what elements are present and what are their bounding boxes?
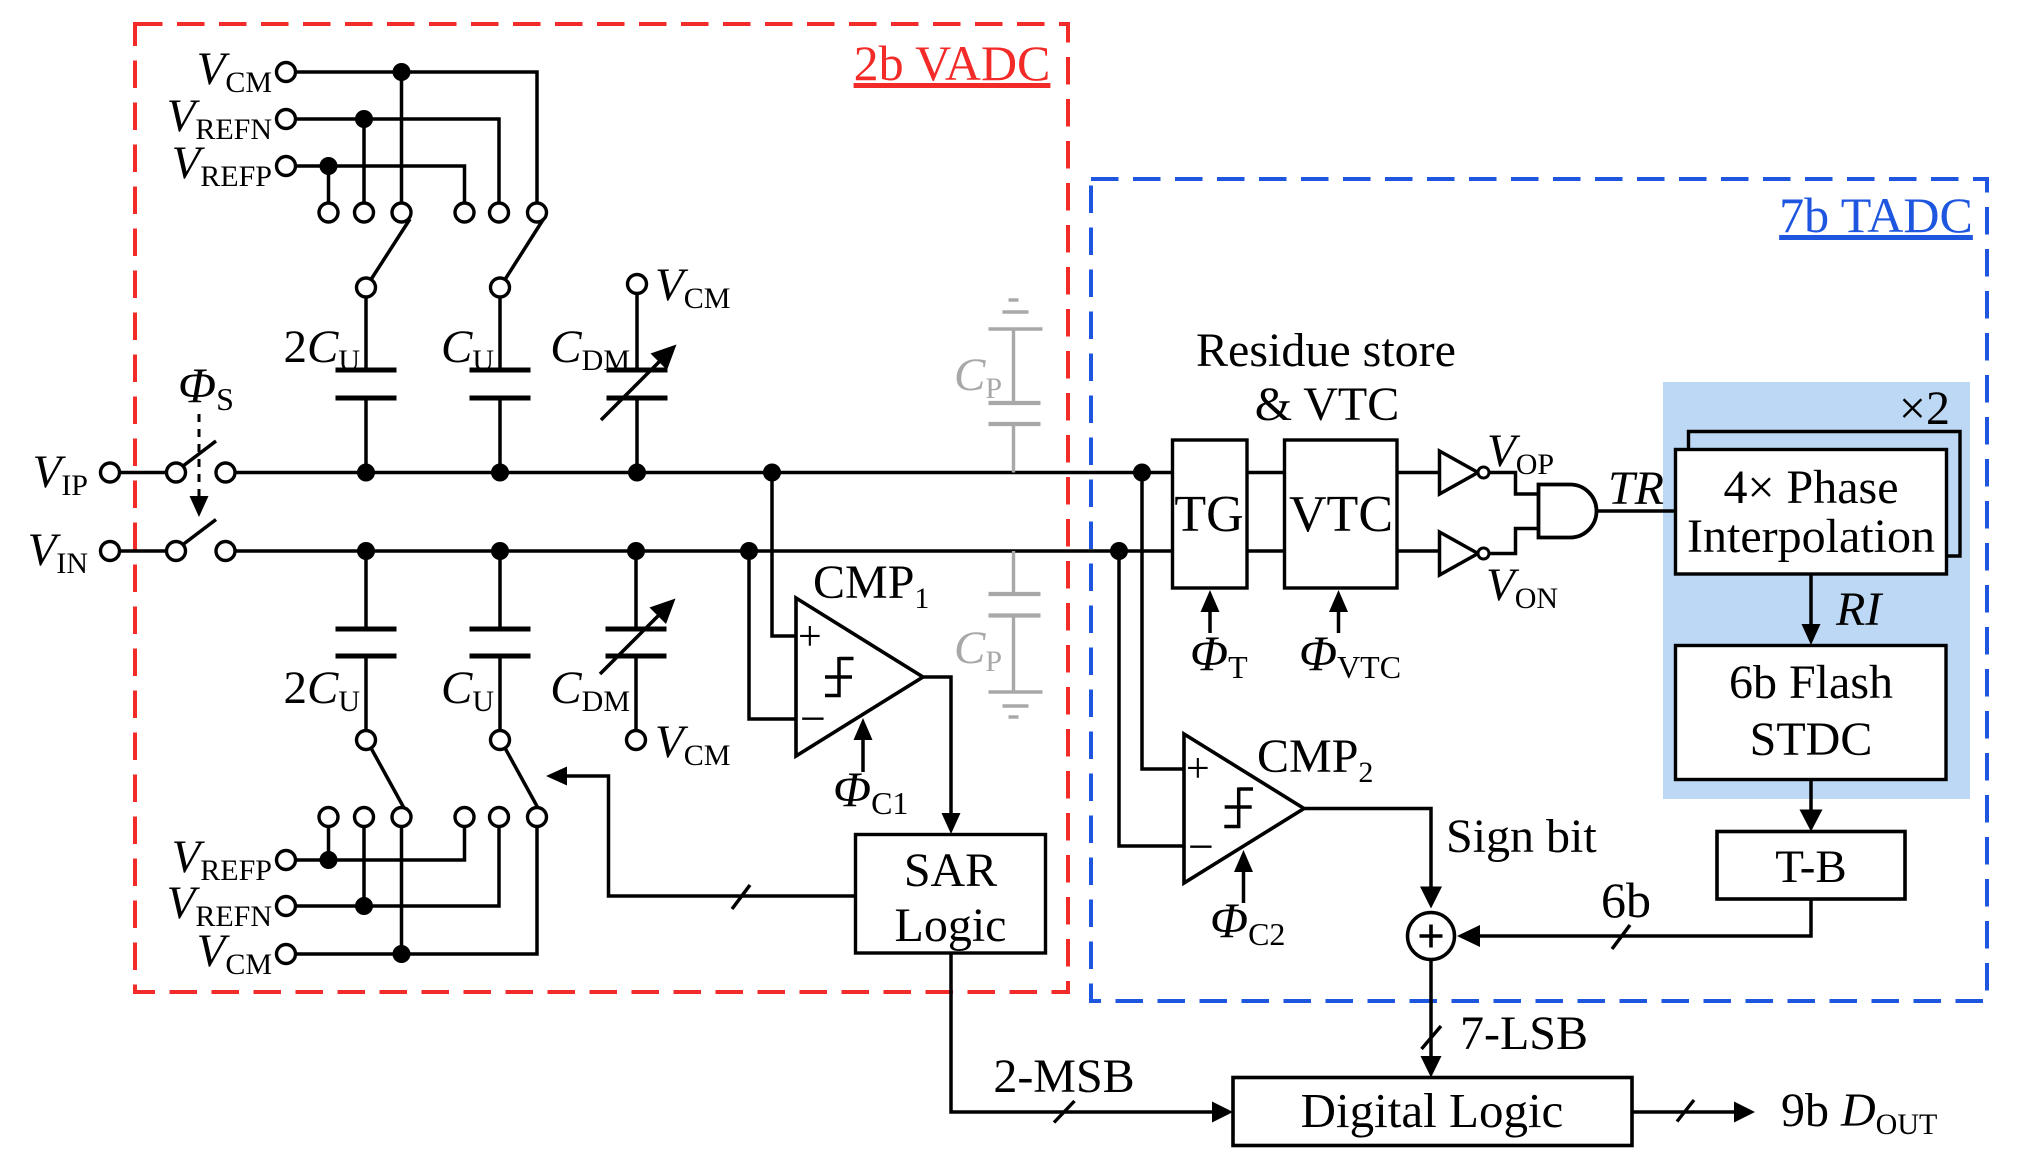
op-amp CMP1 comparator [796,556,929,756]
node VREFP bottom terminal [172,831,296,887]
svg-text:Digital Logic: Digital Logic [1301,1083,1564,1138]
wire CMP2 plus input [1142,473,1184,770]
wire VREFP bottom distribution [296,827,465,870]
svg-text:STDC: STDC [1750,713,1873,766]
svg-text:SAR: SAR [904,844,997,897]
svg-text:Interpolation: Interpolation [1687,510,1935,563]
capacitor 2CU bottom [283,551,396,731]
wire CMP2 output sign bit [1304,809,1597,909]
block SAR Logic [856,835,1046,954]
adder plus circle [1408,913,1455,960]
label x2 [1899,382,1950,435]
svg-text:Logic: Logic [895,899,1007,952]
wire T-B to adder 6b [1457,872,1811,949]
svg-text:Sign bit: Sign bit [1446,810,1597,863]
switch S1 bottom contacts [319,808,411,827]
wire RI arrow [1802,574,1884,645]
svg-text:6b Flash: 6b Flash [1729,656,1893,709]
wire STDC to T-B arrow [1800,780,1823,832]
capacitor CP bottom (parasitic, grey) [954,551,1043,717]
svg-text:7-LSB: 7-LSB [1460,1007,1588,1060]
capacitor CDM top (variable) [550,259,730,473]
frame 2b VADC dashed box [135,24,1068,992]
block T-B [1717,832,1905,900]
node VREFN bottom terminal [167,877,296,933]
svg-text:4× Phase: 4× Phase [1723,461,1898,514]
svg-text:+: + [798,614,822,660]
wire CMP1 minus input [749,551,796,719]
svg-text:CMP2: CMP2 [1257,730,1373,789]
switch S1 top contacts [319,203,411,222]
wire VTC to inverters bottom [1397,549,1440,553]
switch PHI_S top (VIP sampling switch) [120,441,236,482]
svg-text:2b VADC: 2b VADC [854,35,1051,91]
block Digital Logic [1233,1078,1632,1146]
svg-text:6b: 6b [1601,872,1651,928]
node VCM top terminal [197,43,296,99]
node VREFN top terminal [167,90,296,146]
label 7b TADC [1779,187,1973,243]
node VIP input terminal [33,446,120,502]
wire VREFN top distribution [296,110,500,203]
svg-text:−: − [1188,821,1214,872]
capacitor CDM bottom (variable) [550,551,730,772]
switch S2 bottom contacts [455,808,547,827]
svg-text:×2: ×2 [1899,382,1950,435]
wire top rail VIP [235,464,1173,482]
inverter VON [1440,532,1559,615]
node VREFP top terminal [172,137,296,193]
label PHI_T clock arrow [1190,590,1248,685]
node VIN input terminal [28,524,120,580]
wire CMP2 minus input [1119,551,1184,846]
svg-text:TG: TG [1174,486,1243,543]
wire CMP1 output to SAR [923,677,961,834]
wire VTC to inverters top [1397,471,1440,475]
capacitor 2CU top [283,297,396,473]
wire VOP to AND [1489,473,1539,495]
wire VREFN bottom distribution [296,827,500,916]
switch S1 bottom pole and arm [357,731,405,809]
block 4x Phase Interpolation (stacked) [1676,432,1961,575]
wire VREFP top distribution [296,157,465,203]
wire VCM top distribution [296,63,538,203]
svg-text:CMP1: CMP1 [813,556,929,615]
svg-text:7b TADC: 7b TADC [1779,187,1973,243]
label PHI_C1 clock arrow [833,718,908,821]
wire bottom rail VIN [235,542,1173,560]
label PHI_C2 clock arrow [1210,850,1285,952]
capacitor CP top (parasitic, grey) [954,300,1043,473]
inverter VOP [1440,425,1555,494]
shaded TDC region [1663,382,1970,799]
wire TG to VTC bottom [1246,549,1285,553]
wire SAR feedback to switches [546,767,856,910]
svg-text:T-B: T-B [1775,841,1846,893]
wire digital logic output 9b DOUT [1632,1084,1937,1141]
frame 7b TADC dashed box [1091,179,1987,1001]
label PHI_S and dashed control line [178,357,234,517]
block 6b Flash STDC [1676,646,1947,780]
switch S2 top contacts [455,203,547,222]
wire SAR to digital logic 2-MSB [951,953,1233,1123]
wire adder to digital logic 7-LSB [1421,960,1589,1078]
gate AND [1539,485,1597,538]
op-amp CMP2 comparator [1184,730,1373,883]
node VCM bottom terminal [197,925,296,981]
svg-text:TR: TR [1608,462,1664,515]
svg-text:RI: RI [1835,583,1883,636]
capacitor CU top [441,297,531,473]
wire TG to VTC top [1246,471,1285,475]
wire TR to phase interpolation [1597,462,1676,515]
wire CMP1 plus input [772,473,796,637]
switch S2 bottom pole and arm [491,731,539,809]
wire VON to AND [1489,529,1539,554]
switch PHI_S bottom (VIN sampling switch) [120,520,236,561]
svg-text:Residue store: Residue store [1196,324,1456,377]
block VTC [1285,440,1398,588]
svg-text:+: + [1186,746,1210,792]
capacitor CU bottom [441,551,531,731]
svg-text:2-MSB: 2-MSB [993,1050,1134,1103]
svg-text:−: − [800,693,826,744]
label PHI_VTC clock arrow [1299,590,1401,685]
svg-text:VTC: VTC [1289,486,1393,543]
label Residue store & VTC [1196,324,1456,431]
switch S2 top pole and arm [491,219,544,297]
label 2b VADC [854,35,1051,91]
block TG [1173,440,1248,588]
svg-text:& VTC: & VTC [1255,378,1399,431]
switch S1 top pole and arm [357,219,411,297]
wire VCM bottom distribution [296,827,538,964]
